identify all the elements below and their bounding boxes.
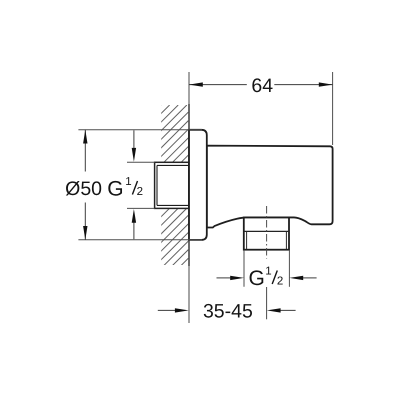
dimension G1/2 rear: extension lines: [127, 161, 155, 163]
dimension G1/2 outlet: label: [249, 266, 284, 290]
dimension 64: right extension line: [332, 72, 334, 145]
dimension G1/2 rear: label: [107, 176, 143, 201]
svg-text:1: 1: [265, 266, 271, 278]
dimension 64: right arrowhead: [319, 82, 333, 86]
dimension D50: top arrowhead: [83, 130, 87, 144]
dimension 64: left arrowhead: [189, 82, 203, 86]
wall flange: [189, 130, 207, 240]
dimension D50: bottom arrowhead: [83, 226, 87, 240]
dimension 35-45: left arrow: [158, 309, 176, 311]
svg-text:G: G: [249, 267, 265, 290]
dimension G1/2 rear: bottom arrow: [133, 221, 135, 239]
svg-text:35-45: 35-45: [203, 300, 253, 322]
center line of outlet: [266, 206, 268, 259]
dimension D50: extension lines: [78, 129, 202, 131]
dimension G1/2 outlet: left arrow: [217, 277, 233, 279]
outlet stub: [244, 218, 289, 250]
svg-text:Ø50: Ø50: [65, 178, 102, 200]
wall face line: [188, 72, 190, 104]
dimension G1/2 outlet: extension lines: [243, 251, 245, 287]
dimension G1/2 outlet: right arrow: [301, 277, 316, 279]
svg-text:64: 64: [251, 75, 273, 97]
wall hatching: [0, 105, 350, 275]
svg-text:2: 2: [277, 276, 283, 288]
dimension D50: dimension line: [84, 130, 86, 172]
body outline: [207, 146, 333, 228]
svg-text:G: G: [107, 178, 123, 201]
dimension G1/2 rear: top arrow: [133, 130, 135, 149]
svg-text:1: 1: [125, 176, 131, 188]
dimension 64: dimension line: [189, 84, 247, 86]
svg-text:2: 2: [137, 186, 143, 198]
rear threaded connection G1/2: [155, 162, 189, 208]
dimension 35-45: right arrow: [280, 309, 296, 311]
